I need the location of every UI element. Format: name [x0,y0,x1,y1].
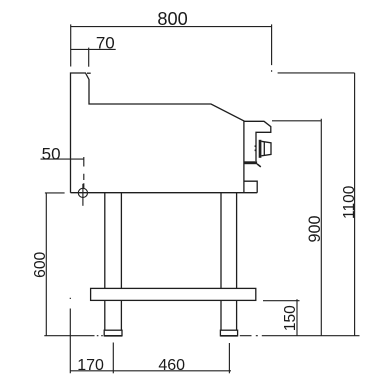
dim 600 top extension [45,192,65,194]
ground dash-dot line left [44,335,103,337]
dim 800 line [71,26,272,28]
right leg [221,193,237,289]
gas inlet circle [78,188,87,197]
dim 150 top extension [263,300,300,302]
left foot bottom [104,335,122,337]
dim 150 line [296,299,298,336]
gas inlet crosshair [82,184,84,206]
extension left leg center [112,343,114,374]
dim 900 line [320,119,322,336]
svg-text:460: 460 [158,357,185,374]
svg-text:600: 600 [32,251,49,277]
svg-text:800: 800 [157,9,187,29]
left foot cap [104,330,122,336]
splashback and body outline [71,73,244,193]
svg-text:50: 50 [42,144,61,163]
right foot bottom [220,335,237,337]
ground dash-dot line right [240,335,360,337]
dim 70 right tick [88,48,90,67]
front trim profile [244,121,271,161]
dim 900 top extension [272,120,321,122]
svg-text:900: 900 [306,215,324,242]
svg-text:1100: 1100 [341,185,358,219]
dim 800 left extension [70,24,72,66]
rail lip [257,164,261,167]
dim 50 line [41,158,84,160]
svg-text:70: 70 [96,33,115,52]
control panel bumps [255,146,256,150]
dim 50 right extension dashed [83,157,85,188]
dim 600 line [45,193,47,336]
dim 170/460 line [70,370,231,372]
body bottom line [71,192,258,194]
dim 800 right extension [271,24,273,71]
knob body [261,141,271,156]
left leg [105,193,122,289]
shelf [91,288,256,300]
extension body left dashed [69,298,71,374]
left foot shank [105,300,122,330]
knob bezel [259,140,262,158]
right foot shank [221,300,237,330]
dim 1100 line [354,73,356,336]
dim 1100 top extension [278,72,355,74]
panel bottom rail [244,161,257,164]
splashback top stub [87,72,91,74]
extension right leg center [228,343,230,373]
right foot cap [220,330,237,336]
svg-text:150: 150 [282,305,299,331]
svg-text:170: 170 [77,357,104,374]
dim 70 line [71,48,116,50]
gas box [244,181,257,193]
